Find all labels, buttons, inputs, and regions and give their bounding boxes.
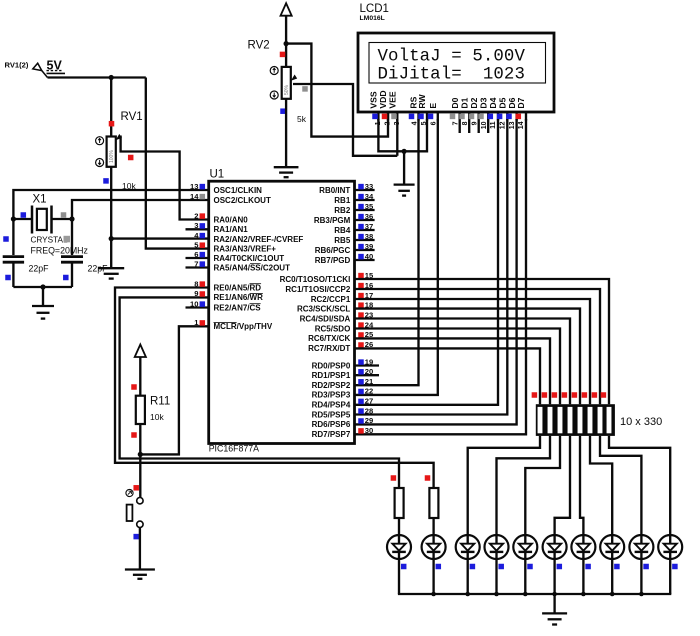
LED D3 xyxy=(456,535,480,559)
svg-text:RB6/PGC: RB6/PGC xyxy=(315,246,351,255)
wire RV2 bottom to ground xyxy=(285,99,287,167)
LED D9 xyxy=(629,535,653,559)
LED D7 xyxy=(571,535,595,559)
svg-text:D1: D1 xyxy=(459,97,469,108)
svg-text:D3: D3 xyxy=(478,97,488,108)
crystal node square 1 xyxy=(3,236,9,242)
pin 26 stub/label right xyxy=(308,340,373,353)
ground for button xyxy=(125,570,155,579)
svg-text:RA4/T0CKI/C1OUT: RA4/T0CKI/C1OUT xyxy=(214,254,285,263)
svg-text:RV1(2): RV1(2) xyxy=(5,61,29,70)
LED D2 xyxy=(422,535,446,559)
pin 37 stub/label right xyxy=(334,222,374,235)
junction LED rail xyxy=(581,592,586,597)
svg-text:8: 8 xyxy=(462,121,469,125)
pack input state square 2 xyxy=(542,392,548,398)
wire RC1 to resistor pack xyxy=(355,289,601,404)
button state square bottom xyxy=(133,534,139,540)
wire LED D6 cathode xyxy=(553,559,555,594)
value 22pF C2 xyxy=(88,264,109,274)
wire pack output to LED4 xyxy=(497,436,551,535)
capacitor C2 22pF xyxy=(61,257,83,263)
wire pack output to LED9 xyxy=(600,436,641,535)
RV2 state square top xyxy=(280,52,286,58)
svg-text:RB7/PGD: RB7/PGD xyxy=(315,256,351,265)
wire RV1 bottom to ground xyxy=(110,167,112,268)
LCD pin label E xyxy=(428,103,438,109)
junction LED rail xyxy=(610,592,615,597)
R1 state square xyxy=(391,475,397,481)
svg-text:34: 34 xyxy=(365,192,374,201)
pin 5 stub/label left xyxy=(194,240,276,253)
pin 16 stub/label right xyxy=(285,281,373,294)
svg-text:VSS: VSS xyxy=(369,91,379,108)
wire pack output to LED10 xyxy=(609,436,670,535)
wire RV2 to LCD VDD xyxy=(286,44,388,137)
wire RC7 to resistor pack xyxy=(355,348,541,404)
svg-text:LM016L: LM016L xyxy=(360,15,385,22)
svg-text:RC5/SDO: RC5/SDO xyxy=(315,324,351,333)
svg-text:14: 14 xyxy=(190,192,199,201)
wire LED D2 cathode xyxy=(432,559,434,594)
LCD pin number 9 xyxy=(471,121,478,125)
pin 22 stub/label right xyxy=(312,387,374,400)
pin 13 stub/label left xyxy=(190,182,262,195)
LCD pin stub 7 (D0) xyxy=(459,112,461,133)
LED D5 state square xyxy=(527,564,533,570)
svg-text:10: 10 xyxy=(190,299,198,308)
label LCD1 xyxy=(360,3,389,15)
svg-text:9: 9 xyxy=(194,289,198,298)
svg-text:RD7/PSP7: RD7/PSP7 xyxy=(312,430,351,439)
LCD pin stub 10 (D3) xyxy=(487,112,489,133)
svg-text:RA0/AN0: RA0/AN0 xyxy=(214,215,249,224)
wire LCD VEE from RV2 wiper xyxy=(396,119,398,156)
wire R2 to LED2 xyxy=(432,518,434,535)
svg-text:22pF: 22pF xyxy=(29,264,50,274)
pack input state square 8 xyxy=(601,392,607,398)
wire RC3 to resistor pack xyxy=(355,309,581,405)
wire RE0 to R2/LED2 xyxy=(115,288,434,489)
svg-text:RE1/AN6/WR: RE1/AN6/WR xyxy=(214,293,264,302)
svg-text:2: 2 xyxy=(194,211,198,220)
pin 34 stub/label right xyxy=(334,192,374,205)
LCD pin state square 10 xyxy=(478,114,484,120)
LCD pin stub 8 (D1) xyxy=(468,112,470,133)
svg-text:7: 7 xyxy=(194,259,198,268)
value label 10 x 330 xyxy=(620,416,662,428)
svg-text:CRYSTAL: CRYSTAL xyxy=(31,235,68,244)
wire LED D7 cathode xyxy=(582,559,584,594)
wire LCD D6 to RD6 xyxy=(355,119,517,424)
wire LED ground rail xyxy=(398,593,671,595)
LED D9 state square xyxy=(643,564,649,570)
junction RV2 top xyxy=(284,41,289,46)
svg-text:35: 35 xyxy=(365,202,374,211)
svg-text:39: 39 xyxy=(365,242,373,251)
label RV1 xyxy=(121,111,143,123)
LED D4 xyxy=(485,535,509,559)
svg-text:RE0/AN5/RD: RE0/AN5/RD xyxy=(214,283,262,292)
pin 18 stub/label right xyxy=(297,300,373,313)
LCD pin number 13 xyxy=(509,121,516,129)
resistor R1 330 xyxy=(395,488,404,518)
node RV1(2) terminal label xyxy=(5,61,29,70)
value 10k R11 xyxy=(150,412,164,422)
svg-text:VEE: VEE xyxy=(388,91,398,108)
pin 40 stub/label right xyxy=(315,252,375,265)
ground for RV2 xyxy=(274,167,299,177)
LCD pin stub 6 (E) xyxy=(437,112,439,121)
svg-text:OSC2/CLKOUT: OSC2/CLKOUT xyxy=(214,196,271,205)
LED D10 xyxy=(658,535,682,559)
svg-text:MCLR/Vpp/THV: MCLR/Vpp/THV xyxy=(214,322,273,331)
R11 state square bottom xyxy=(131,432,137,438)
LCD pin state square 9 xyxy=(469,114,475,120)
label CRYSTAL xyxy=(31,235,71,244)
svg-text:33: 33 xyxy=(365,182,373,191)
wire RC5 to resistor pack xyxy=(355,329,561,405)
svg-text:12: 12 xyxy=(499,121,506,129)
svg-text:13: 13 xyxy=(509,121,516,129)
RV2 state square bottom xyxy=(280,108,286,114)
wire C2 bottom xyxy=(71,263,73,287)
svg-text:DiJital= 1023: DiJital= 1023 xyxy=(378,65,526,84)
svg-text:RD3/PSP3: RD3/PSP3 xyxy=(312,391,351,400)
svg-text:RB1: RB1 xyxy=(334,196,351,205)
wire RA2/VREF- to RV1 ground node xyxy=(111,237,209,239)
LCD pin stub 13 (D6) xyxy=(515,112,517,121)
button actuator xyxy=(126,489,133,496)
pack input state square 4 xyxy=(562,392,568,398)
wire C1 bottom xyxy=(12,263,14,287)
LCD pin stub 4 (RS) xyxy=(417,112,419,121)
svg-text:10: 10 xyxy=(481,121,488,129)
pin 1 stub/label left xyxy=(194,318,273,331)
pack input state square 3 xyxy=(552,392,558,398)
LCD pin label D3 xyxy=(478,97,488,108)
svg-text:R11: R11 xyxy=(150,395,170,407)
svg-text:37: 37 xyxy=(365,222,373,231)
wire RC2 to resistor pack xyxy=(355,299,591,404)
LED D5 xyxy=(513,535,537,559)
LCD pin state square 6 xyxy=(428,114,434,120)
svg-text:22: 22 xyxy=(365,387,373,396)
LED D1 xyxy=(387,535,411,559)
pack input state square 6 xyxy=(582,392,588,398)
pin 14 stub/label left xyxy=(190,192,271,205)
svg-text:50%: 50% xyxy=(284,84,290,95)
pin 38 stub/label right xyxy=(334,232,374,245)
R2 state square xyxy=(425,475,431,481)
wire RE1 to R1/LED1 xyxy=(120,297,399,488)
crystal node square 3 xyxy=(63,275,69,281)
resistor R2 330 xyxy=(429,488,438,518)
svg-text:RE2/AN7/CS: RE2/AN7/CS xyxy=(214,303,262,312)
svg-text:RC1/T1OSI/CCP2: RC1/T1OSI/CCP2 xyxy=(285,285,350,294)
crystal state square left xyxy=(21,212,27,218)
wire RC4 to resistor pack xyxy=(355,319,571,405)
svg-text:FREQ=20MHz: FREQ=20MHz xyxy=(31,245,88,255)
R11 state square top xyxy=(131,384,137,390)
LCD pin stub 1 (VSS) xyxy=(377,112,379,121)
wire LED D8 cathode xyxy=(611,559,613,594)
svg-text:RB4: RB4 xyxy=(334,226,351,235)
LCD pin number 1 xyxy=(375,121,382,125)
LCD pin label VDD xyxy=(378,90,388,108)
LED D6 state square xyxy=(557,564,563,570)
LCD text row 2 xyxy=(378,65,526,84)
svg-text:RW: RW xyxy=(417,94,427,109)
pin 36 stub/label right xyxy=(314,212,375,225)
ground for crystal xyxy=(32,287,54,319)
RV2 wiper arrow xyxy=(291,75,397,156)
RV2 wiper state square xyxy=(302,86,308,92)
value 10k for RV1 xyxy=(122,181,136,191)
value 22pF C1 xyxy=(29,264,50,274)
RV1 wiper arrow xyxy=(116,134,209,220)
LCD pin state square 8 xyxy=(459,114,465,120)
wire LCD D4 to RD4 xyxy=(355,119,498,405)
LCD pin number 14 xyxy=(518,121,525,129)
LCD pin stub 11 (D4) xyxy=(497,112,499,121)
wire OSC1 to crystal xyxy=(13,190,208,255)
LCD pin number 12 xyxy=(499,121,506,129)
svg-text:RD2/PSP2: RD2/PSP2 xyxy=(312,381,351,390)
LCD pin label D7 xyxy=(516,97,526,108)
push button xyxy=(127,498,143,528)
wire RC6 to resistor pack xyxy=(355,338,551,404)
pin 28 stub/label right xyxy=(312,406,374,419)
svg-text:9: 9 xyxy=(471,121,478,125)
svg-text:22pF: 22pF xyxy=(88,264,109,274)
svg-text:U1: U1 xyxy=(210,169,225,181)
wire LCD RS to RD2 xyxy=(355,119,419,385)
LCD pin label D6 xyxy=(507,97,517,108)
wire crystal left link xyxy=(13,218,32,220)
wire button to ground xyxy=(139,527,141,569)
value 5k RV2 xyxy=(297,114,307,124)
ground for RV1 xyxy=(98,268,124,278)
svg-text:RC3/SCK/SCL: RC3/SCK/SCL xyxy=(297,304,350,313)
wire LED D3 cathode xyxy=(467,559,469,594)
pin 17 stub/label right xyxy=(311,291,374,304)
LCD pin state square 2 xyxy=(382,114,388,120)
junction LED rail xyxy=(552,592,557,597)
pin 7 stub/label left xyxy=(186,259,291,272)
LCD pin label RS xyxy=(409,96,419,108)
wire LCD D5 to RD5 xyxy=(355,119,507,415)
wire pack output to LED8 xyxy=(590,436,612,535)
pin 33 stub/label right xyxy=(319,182,374,195)
svg-text:11: 11 xyxy=(490,121,497,129)
svg-text:RC2/CCP1: RC2/CCP1 xyxy=(311,295,351,304)
junction LED rail xyxy=(494,592,499,597)
LCD pin stub 5 (RW) xyxy=(426,112,428,121)
LCD pin number 2 xyxy=(384,121,391,125)
label X1 xyxy=(33,194,47,206)
svg-text:E: E xyxy=(428,103,438,109)
junction 5V/RV1 xyxy=(109,75,114,80)
LCD pin number 4 xyxy=(411,121,418,125)
pack input state square 1 xyxy=(532,392,538,398)
svg-text:7: 7 xyxy=(452,121,459,125)
label U1 xyxy=(210,169,225,181)
LCD pin label VSS xyxy=(369,91,379,108)
LCD pin state square 1 xyxy=(372,114,378,120)
wire RC0 to resistor pack xyxy=(355,279,610,404)
svg-text:27: 27 xyxy=(365,397,373,406)
svg-text:21: 21 xyxy=(365,377,374,386)
label RV2 xyxy=(248,40,270,52)
LCD pin label VEE xyxy=(388,91,398,108)
LED D3 state square xyxy=(470,564,476,570)
LED D2 state square xyxy=(436,564,442,570)
pin 4 stub/label left xyxy=(194,231,303,244)
LCD pin state square 13 xyxy=(506,114,512,120)
pin 27 stub/label right xyxy=(312,397,374,410)
LCD pin number 5 xyxy=(421,121,428,125)
svg-text:RC4/SDI/SDA: RC4/SDI/SDA xyxy=(300,314,351,323)
LED D4 state square xyxy=(498,564,504,570)
junction crystal left xyxy=(11,216,16,221)
svg-text:RD5/PSP5: RD5/PSP5 xyxy=(312,410,351,419)
wire R1 to LED1 xyxy=(398,518,400,535)
svg-text:OSC1/CLKIN: OSC1/CLKIN xyxy=(214,186,263,195)
wire 5V to RA3/VREF+ xyxy=(146,78,209,249)
wire LED D9 cathode xyxy=(640,559,642,594)
LCD pin state square 5 xyxy=(418,114,424,120)
junction RV1/RA2 xyxy=(109,236,114,241)
LCD pin state square 7 xyxy=(450,114,456,120)
LED D8 state square xyxy=(614,564,620,570)
pin 21 stub/label right xyxy=(312,377,374,390)
power arrow for R11 xyxy=(135,345,146,396)
LCD pin stub 12 (D5) xyxy=(506,112,508,121)
svg-text:6: 6 xyxy=(194,250,198,259)
wire pack output to LED5 xyxy=(525,436,560,535)
svg-text:19: 19 xyxy=(365,357,373,366)
pin 30 stub/label right xyxy=(312,426,374,439)
power arrow for RV2 xyxy=(281,3,292,67)
wire 5V to RV1 top xyxy=(110,78,112,138)
svg-text:6: 6 xyxy=(430,121,437,125)
LCD pin number 6 xyxy=(430,121,437,125)
label FREQ=20MHz xyxy=(31,245,88,255)
crystal node square 2 xyxy=(5,275,11,281)
LCD pin number 7 xyxy=(452,121,459,125)
ground for LCD xyxy=(394,151,415,195)
svg-text:RV1: RV1 xyxy=(121,111,143,123)
wire LCD RW to ground node xyxy=(404,119,427,151)
junction LED rail xyxy=(465,592,470,597)
svg-text:2: 2 xyxy=(384,121,391,125)
LCD text row 1 xyxy=(378,47,526,66)
pin 35 stub/label right xyxy=(334,202,374,215)
LCD display LCD1 xyxy=(358,33,554,112)
potentiometer RV2 xyxy=(282,67,291,99)
pin 23 stub/label right xyxy=(300,310,374,323)
svg-text:RB5: RB5 xyxy=(334,236,351,245)
LCD pin label D5 xyxy=(498,97,508,108)
svg-text:RA5/AN4/SS/C2OUT: RA5/AN4/SS/C2OUT xyxy=(214,263,291,272)
pin 19 stub/label right xyxy=(312,357,379,370)
junction MCLR/R11/button xyxy=(138,452,143,457)
wire OSC2 to crystal xyxy=(72,200,209,255)
LCD pin label D1 xyxy=(459,97,469,108)
wire 5V rail xyxy=(48,76,146,78)
pin 2 stub/label left xyxy=(194,211,248,224)
svg-text:100%: 100% xyxy=(109,150,115,163)
pin 15 stub/label right xyxy=(280,271,374,284)
LCD pin stub 9 (D2) xyxy=(478,112,480,133)
svg-text:29: 29 xyxy=(365,416,373,425)
svg-text:LCD1: LCD1 xyxy=(360,3,389,15)
RV2 increment control xyxy=(270,67,278,75)
RV1 bottom state square xyxy=(103,178,109,184)
pin 9 stub/label left xyxy=(194,289,263,302)
label PIC16F877A xyxy=(209,444,259,454)
svg-text:36: 36 xyxy=(365,212,373,221)
svg-text:RD4/PSP4: RD4/PSP4 xyxy=(312,401,351,410)
LCD pin label D2 xyxy=(469,97,479,108)
svg-text:14: 14 xyxy=(518,121,525,129)
pin 29 stub/label right xyxy=(312,416,374,429)
junction LED rail xyxy=(431,592,436,597)
LED D1 state square xyxy=(401,564,407,570)
svg-text:4: 4 xyxy=(411,121,418,125)
RV1 increment control xyxy=(96,137,104,145)
svg-text:38: 38 xyxy=(365,232,373,241)
pin 3 stub/label left xyxy=(186,221,249,234)
svg-text:RB0/INT: RB0/INT xyxy=(319,186,350,195)
svg-text:RV2: RV2 xyxy=(248,40,270,52)
RV1 decrement control xyxy=(96,159,104,167)
svg-text:10k: 10k xyxy=(150,412,164,422)
LCD pin stub 2 (VDD) xyxy=(387,112,389,121)
svg-text:D2: D2 xyxy=(469,97,479,108)
wire MCLR xyxy=(140,326,208,454)
wire R11 to button xyxy=(139,424,141,498)
svg-text:3: 3 xyxy=(194,221,198,230)
junction crystal right xyxy=(69,216,74,221)
ground for LED rail xyxy=(542,594,567,625)
label R11 xyxy=(150,395,170,407)
svg-text:PIC16F877A: PIC16F877A xyxy=(209,444,259,454)
junction crystal ground xyxy=(40,284,45,289)
pin 20 stub/label right xyxy=(312,367,379,380)
button state square top xyxy=(133,485,139,491)
LED D7 state square xyxy=(585,564,591,570)
svg-text:RD6/PSP6: RD6/PSP6 xyxy=(312,420,351,429)
LCD pin state square 4 xyxy=(409,114,415,120)
RV1 wiper state square xyxy=(128,155,134,161)
pin 39 stub/label right xyxy=(315,242,375,255)
LED D10 state square xyxy=(672,564,678,570)
svg-text:40: 40 xyxy=(365,252,373,261)
svg-text:D7: D7 xyxy=(516,97,526,108)
LCD pin state square 14 xyxy=(516,114,522,120)
svg-text:RC6/TX/CK: RC6/TX/CK xyxy=(308,334,350,343)
resistor R11 xyxy=(136,396,145,424)
junction LED rail xyxy=(523,592,528,597)
LCD pin state square 11 xyxy=(488,114,494,120)
svg-text:RC0/T1OSO/T1CKI: RC0/T1OSO/T1CKI xyxy=(280,275,351,284)
LCD pin number 10 xyxy=(481,121,488,129)
svg-text:28: 28 xyxy=(365,406,373,415)
potentiometer RV1 xyxy=(107,137,116,167)
crystal state square right xyxy=(61,212,67,218)
